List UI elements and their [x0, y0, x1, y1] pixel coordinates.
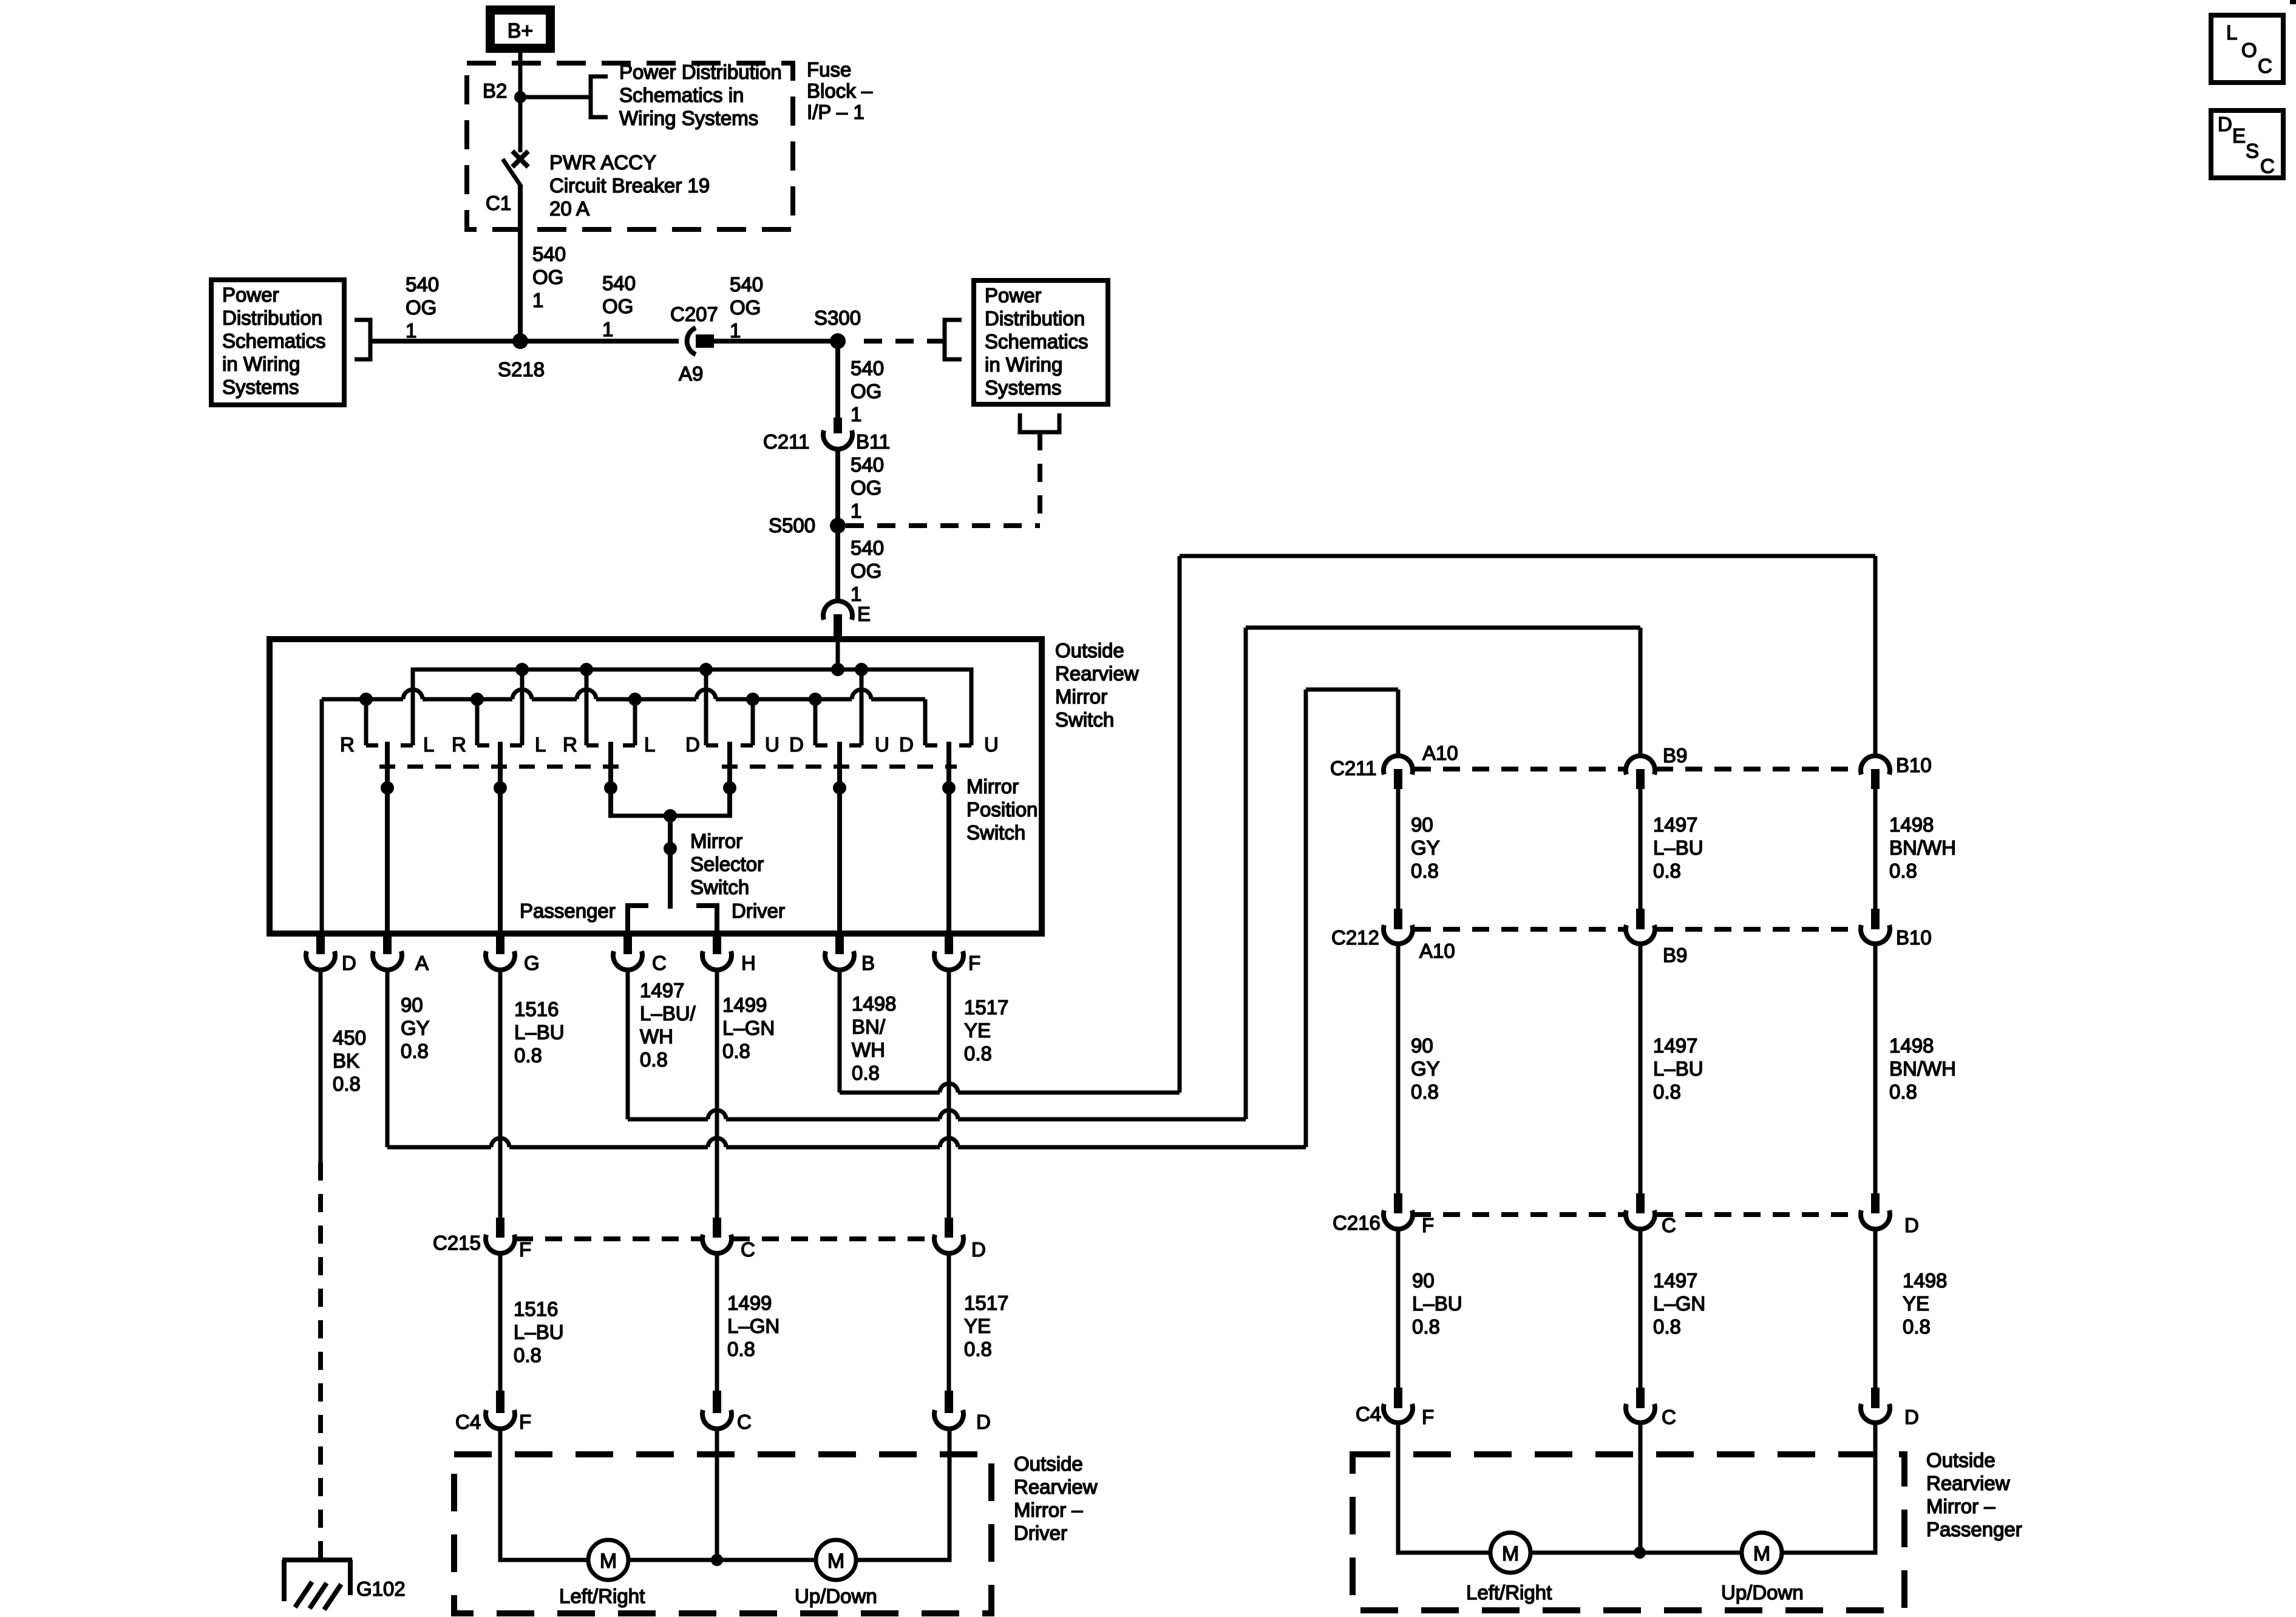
- LOC hotlink box: [2211, 15, 2283, 83]
- connector C4 passenger pin D female half: [1861, 1404, 1890, 1423]
- connector C211 pin B10 female half: [1861, 756, 1890, 775]
- svg-text:1497: 1497: [1653, 1269, 1697, 1292]
- connector C215 pin D male terminal: [945, 1218, 953, 1238]
- svg-text:D: D: [976, 1411, 991, 1433]
- svg-text:O: O: [2241, 39, 2257, 61]
- svg-text:1516: 1516: [514, 1298, 558, 1320]
- wire C207 to S300: [714, 339, 838, 344]
- svg-text:A: A: [415, 952, 429, 974]
- svg-text:Passenger: Passenger: [1926, 1518, 2022, 1541]
- svg-text:D: D: [685, 733, 700, 756]
- svg-text:540: 540: [851, 357, 884, 379]
- svg-text:L–BU: L–BU: [1653, 836, 1703, 859]
- connector C216 pin D male terminal: [1871, 1193, 1880, 1213]
- connector C4 passenger pin F male terminal: [1394, 1388, 1402, 1408]
- svg-text:Fuse: Fuse: [807, 58, 851, 81]
- connector C216 pin D female half: [1861, 1210, 1890, 1229]
- svg-text:0.8: 0.8: [514, 1044, 542, 1066]
- svg-text:Position: Position: [966, 798, 1038, 821]
- svg-text:Driver: Driver: [732, 900, 785, 922]
- svg-text:Schematics: Schematics: [985, 330, 1089, 353]
- svg-text:L: L: [423, 733, 434, 756]
- svg-text:L: L: [535, 733, 546, 756]
- wire S500 down to connector E: [835, 526, 840, 601]
- svg-text:Outside: Outside: [1926, 1449, 1995, 1471]
- connector C4 passenger pin F female half: [1384, 1404, 1413, 1423]
- wiper pivot dots: [381, 781, 394, 795]
- svg-text:F: F: [519, 1238, 531, 1261]
- svg-text:C212: C212: [1331, 926, 1379, 949]
- svg-text:0.8: 0.8: [964, 1338, 992, 1360]
- mechanical linkage dashes (left/right rocker): [379, 765, 619, 769]
- feed bus drop stubs from upper bus: [520, 670, 525, 745]
- wire 1497 L-BU/WH up right side: [1244, 628, 1248, 1119]
- C216 connector dashes: [1414, 1212, 1625, 1217]
- svg-text:0.8: 0.8: [1653, 1080, 1681, 1103]
- switch pin G female half: [486, 951, 515, 970]
- passenger left/right motor M: [1490, 1533, 1530, 1573]
- connector E male terminal: [834, 614, 842, 636]
- svg-text:0.8: 0.8: [964, 1042, 992, 1065]
- svg-text:U: U: [875, 733, 889, 756]
- svg-text:S300: S300: [814, 307, 861, 329]
- svg-text:D: D: [1904, 1406, 1919, 1428]
- svg-text:YE: YE: [1903, 1292, 1929, 1315]
- svg-text:Power: Power: [985, 284, 1042, 307]
- svg-text:S218: S218: [498, 358, 545, 381]
- svg-text:90: 90: [401, 994, 423, 1016]
- svg-text:U: U: [765, 733, 779, 756]
- wire C212 A10 to C216 F (90 GY): [1396, 944, 1401, 1193]
- svg-text:0.8: 0.8: [1889, 1080, 1917, 1103]
- svg-text:I/P – 1: I/P – 1: [807, 101, 864, 123]
- wire pin F 1517 YE down to C215: [947, 970, 951, 1218]
- outside rearview mirror switch box: [270, 639, 1042, 934]
- svg-text:GY: GY: [1411, 836, 1440, 859]
- svg-text:1497: 1497: [640, 979, 684, 1002]
- svg-text:Wiring Systems: Wiring Systems: [619, 107, 758, 129]
- wire left reference to S218: [370, 339, 520, 344]
- wire E into switch (to feed bus): [836, 635, 840, 670]
- svg-text:450: 450: [333, 1026, 366, 1049]
- svg-text:WH: WH: [852, 1039, 885, 1061]
- wire C215 D to C4 D (1517 YE): [947, 1253, 951, 1391]
- svg-text:L–BU: L–BU: [514, 1321, 564, 1343]
- svg-text:C215: C215: [433, 1232, 481, 1254]
- wire C212 B10 to C216 D (1498 BN/WH): [1873, 944, 1878, 1193]
- selector passenger contact: [628, 906, 648, 934]
- svg-text:540: 540: [602, 272, 636, 294]
- svg-text:Schematics: Schematics: [222, 330, 326, 352]
- connector C211 pin B10 male terminal: [1871, 769, 1880, 789]
- svg-text:R: R: [452, 733, 466, 756]
- connector C215 pin C male terminal: [713, 1218, 721, 1238]
- svg-text:OG: OG: [730, 296, 761, 319]
- wire S218 to C207: [520, 339, 679, 344]
- connector C212 pin B10 male terminal: [1871, 909, 1880, 929]
- svg-text:Left/Right: Left/Right: [559, 1585, 645, 1607]
- wire C216 D to C4 D (1498 YE): [1873, 1229, 1878, 1388]
- wire between driver motors: [628, 1558, 816, 1562]
- svg-text:B10: B10: [1896, 754, 1932, 776]
- svg-text:1497: 1497: [1653, 1034, 1697, 1057]
- selector driver contact: [696, 906, 717, 934]
- switch contact feet: [366, 744, 378, 748]
- svg-text:OG: OG: [851, 560, 881, 582]
- wire S300 down to C211: [835, 341, 840, 419]
- svg-text:B2: B2: [483, 80, 507, 102]
- svg-text:Selector: Selector: [690, 853, 764, 875]
- svg-text:1497: 1497: [1653, 813, 1697, 836]
- svg-text:D: D: [1904, 1214, 1919, 1236]
- battery feed B+ symbol: [491, 10, 551, 49]
- svg-text:Block –: Block –: [807, 80, 873, 102]
- switch pin D male terminal: [316, 934, 325, 954]
- svg-text:540: 540: [532, 243, 566, 265]
- svg-text:M: M: [600, 1550, 617, 1573]
- svg-text:OG: OG: [851, 476, 881, 499]
- svg-text:Switch: Switch: [966, 821, 1025, 844]
- passenger motor junction: [1634, 1547, 1646, 1559]
- driver up/down motor M: [816, 1540, 856, 1580]
- switch pin D female half: [306, 951, 335, 970]
- svg-text:B11: B11: [856, 430, 890, 453]
- wire C4 D into passenger mirror: [1782, 1423, 1875, 1553]
- svg-text:0.8: 0.8: [1653, 1315, 1681, 1338]
- connector C215 pin D female half: [934, 1235, 963, 1253]
- wire C212 B9 to C216 C (1497 L-BU): [1639, 944, 1643, 1193]
- svg-text:L–GN: L–GN: [727, 1315, 779, 1337]
- svg-text:1498: 1498: [852, 992, 896, 1015]
- connector C212 pin B9 male terminal: [1636, 909, 1645, 929]
- reference bracket (left box): [355, 320, 370, 359]
- connector C216 pin C female half: [1626, 1210, 1655, 1229]
- connector C212 pin A10 male terminal: [1394, 909, 1402, 929]
- svg-text:Mirror: Mirror: [690, 830, 742, 852]
- power distribution reference box (right): [974, 280, 1108, 404]
- node S300 splice: [830, 333, 846, 349]
- svg-text:Switch: Switch: [1055, 708, 1114, 731]
- circuit breaker blade: [503, 159, 521, 187]
- svg-text:L–BU/: L–BU/: [640, 1002, 696, 1025]
- svg-text:1: 1: [851, 500, 861, 522]
- svg-text:540: 540: [851, 453, 884, 476]
- connector C211 pin A10 female half: [1384, 756, 1413, 775]
- C211 connector dashes (right): [1414, 767, 1625, 771]
- svg-text:C216: C216: [1333, 1212, 1381, 1234]
- C212 connector dashes: [1414, 927, 1625, 932]
- svg-text:F: F: [1422, 1406, 1434, 1428]
- connector C211 pin B9 female half: [1626, 756, 1655, 775]
- svg-text:1517: 1517: [964, 1292, 1008, 1314]
- DESC hotlink box: [2211, 110, 2283, 178]
- svg-text:Power: Power: [222, 283, 279, 306]
- page corner mark: [2290, 0, 2296, 4]
- lower bus junction dots: [359, 693, 373, 706]
- svg-text:GY: GY: [401, 1017, 430, 1039]
- svg-text:M: M: [827, 1550, 844, 1573]
- svg-text:C: C: [737, 1411, 752, 1433]
- wire C4 F into passenger mirror: [1398, 1423, 1490, 1553]
- connector C212 pin B10 female half: [1861, 925, 1890, 944]
- svg-text:OG: OG: [851, 380, 881, 402]
- svg-text:Mirror: Mirror: [966, 775, 1019, 798]
- connector C4 driver pin C male terminal: [713, 1391, 721, 1413]
- svg-text:1: 1: [602, 318, 613, 341]
- svg-text:20 A: 20 A: [549, 197, 589, 220]
- wire C4 C into driver mirror: [715, 1429, 719, 1560]
- svg-text:Up/Down: Up/Down: [1721, 1581, 1804, 1604]
- svg-text:B9: B9: [1663, 744, 1687, 767]
- connector C4 driver pin F female half: [486, 1410, 515, 1429]
- wire pin C 1497 L-BU/WH down: [626, 970, 630, 1119]
- svg-text:540: 540: [851, 537, 884, 559]
- svg-text:90: 90: [1411, 813, 1433, 836]
- svg-text:0.8: 0.8: [1889, 859, 1917, 882]
- wire 90 GY up right side: [1304, 690, 1308, 1147]
- driver left/right motor M: [588, 1540, 628, 1580]
- svg-text:Circuit Breaker 19: Circuit Breaker 19: [549, 174, 710, 197]
- wire C211 A10 to C212 A10 (90 GY): [1396, 789, 1401, 909]
- connector C215 pin C female half: [702, 1235, 732, 1253]
- wire C216 F to C4 F (90 L-BU): [1396, 1229, 1401, 1388]
- svg-text:M: M: [1753, 1542, 1770, 1565]
- connector C216 pin C male terminal: [1636, 1193, 1645, 1213]
- svg-text:L–GN: L–GN: [1653, 1292, 1705, 1315]
- connector C4 passenger pin C female half: [1626, 1404, 1655, 1423]
- node S500 splice: [830, 518, 846, 534]
- svg-text:BN/WH: BN/WH: [1889, 836, 1956, 859]
- switch pin C male terminal: [623, 934, 632, 954]
- svg-text:Distribution: Distribution: [222, 307, 322, 329]
- wire C211 B9 to C212 B9 (1497 L-BU): [1639, 789, 1643, 909]
- wire C215 F to C4 F (1516 L-BU): [498, 1253, 503, 1391]
- svg-text:540: 540: [406, 273, 439, 296]
- node S218 splice: [512, 333, 528, 349]
- svg-text:Mirror: Mirror: [1055, 685, 1107, 708]
- svg-text:1499: 1499: [722, 994, 767, 1016]
- svg-text:C211: C211: [1330, 757, 1376, 779]
- svg-text:1499: 1499: [727, 1292, 772, 1314]
- switch pin C female half: [613, 951, 642, 970]
- dashed wire right reference down to S500: [1038, 432, 1042, 526]
- svg-text:0.8: 0.8: [1903, 1315, 1931, 1338]
- connector C4 driver pin D male terminal: [945, 1391, 953, 1413]
- svg-text:OG: OG: [406, 296, 436, 319]
- svg-text:Left/Right: Left/Right: [1466, 1581, 1552, 1604]
- connector C207 female half: [687, 328, 696, 354]
- wire pin A 90 GY horizontal with hops: [387, 1145, 491, 1150]
- wire C215 C to C4 C (1499 L-GN): [715, 1253, 719, 1391]
- svg-text:in Wiring: in Wiring: [985, 353, 1062, 376]
- svg-text:F: F: [968, 952, 980, 974]
- svg-text:Distribution: Distribution: [985, 307, 1085, 330]
- svg-text:OG: OG: [602, 295, 633, 317]
- svg-text:C207: C207: [670, 303, 718, 325]
- ground bus right drop (U6 D contact): [923, 699, 928, 745]
- wire C4 F into driver mirror: [500, 1429, 588, 1560]
- dashed wire S300 to power distribution reference (right): [864, 339, 945, 344]
- svg-text:90: 90: [1411, 1034, 1433, 1057]
- connector C215 pin F female half: [486, 1235, 515, 1253]
- svg-text:C: C: [2258, 55, 2272, 77]
- svg-text:GY: GY: [1411, 1057, 1440, 1080]
- power distribution reference box (left): [211, 280, 344, 405]
- svg-text:E: E: [857, 603, 871, 625]
- wire pin D ground 450 BK (dashed part): [318, 1162, 323, 1558]
- svg-text:D: D: [899, 733, 914, 756]
- connector C211 pin B11 male terminal: [834, 418, 842, 433]
- connector C207 male terminal: [696, 334, 714, 348]
- ground bus stub drops: [364, 699, 369, 745]
- C215 connector dashes: [516, 1236, 701, 1241]
- connector C211 pin A10 male terminal: [1394, 769, 1402, 789]
- svg-text:1498: 1498: [1889, 813, 1934, 836]
- node B2 junction: [514, 91, 526, 103]
- reference bracket (power distribution): [591, 76, 608, 117]
- switch pin G male terminal: [496, 934, 504, 954]
- svg-text:L–BU: L–BU: [1412, 1292, 1462, 1315]
- svg-text:0.8: 0.8: [852, 1062, 880, 1084]
- svg-text:Passenger: Passenger: [520, 900, 616, 922]
- outside rearview mirror passenger dashed box: [1353, 1454, 1904, 1610]
- wire 1497 L-BU/WH horizontal with hops: [628, 1117, 708, 1122]
- svg-text:R: R: [340, 733, 355, 756]
- upper bus junction dots: [515, 663, 529, 676]
- svg-text:0.8: 0.8: [333, 1073, 361, 1095]
- switch pin A female half: [373, 951, 402, 970]
- fuse block I/P dashed boundary: [467, 63, 793, 229]
- connector C216 pin F female half: [1384, 1210, 1413, 1229]
- svg-text:L–BU: L–BU: [514, 1021, 565, 1043]
- svg-text:BK: BK: [333, 1049, 359, 1072]
- connector C4 driver pin D female half: [934, 1410, 963, 1429]
- svg-text:0.8: 0.8: [1411, 859, 1439, 882]
- connector C4 passenger pin D male terminal: [1871, 1388, 1880, 1408]
- wire C4 D into driver mirror: [856, 1429, 949, 1560]
- svg-text:0.8: 0.8: [1411, 1080, 1439, 1103]
- mechanical linkage dashes (up/down rocker): [722, 765, 957, 769]
- svg-text:H: H: [741, 952, 756, 974]
- svg-text:C: C: [1662, 1406, 1676, 1428]
- wire C211 B11 to S500: [835, 449, 840, 526]
- wire 1498 BN/WH up right side: [1178, 556, 1182, 1093]
- svg-text:E: E: [2232, 124, 2246, 147]
- svg-text:A10: A10: [1419, 940, 1455, 962]
- svg-text:C: C: [1662, 1214, 1676, 1236]
- circuit breaker PWR ACCY contact X: [512, 151, 528, 167]
- connector C4 passenger pin C male terminal: [1636, 1388, 1645, 1408]
- svg-text:Power Distribution: Power Distribution: [619, 61, 782, 83]
- mirror selector switch common bar: [608, 814, 732, 818]
- svg-text:0.8: 0.8: [727, 1338, 755, 1360]
- ground G102 symbol: [282, 1558, 352, 1562]
- svg-text:S: S: [2246, 140, 2259, 162]
- switch pin B female half: [825, 951, 854, 970]
- wire breaker to S218: [518, 186, 523, 341]
- switch pin H female half: [702, 951, 732, 970]
- svg-text:Outside: Outside: [1014, 1453, 1083, 1475]
- switch pin B male terminal: [835, 934, 844, 954]
- svg-text:Mirror –: Mirror –: [1014, 1499, 1083, 1521]
- svg-text:0.8: 0.8: [401, 1040, 429, 1062]
- svg-text:0.8: 0.8: [640, 1048, 668, 1071]
- wire between passenger motors: [1530, 1551, 1742, 1555]
- wire C4 C into passenger mirror: [1639, 1423, 1643, 1553]
- wire B2 to circuit breaker contact: [518, 97, 523, 152]
- svg-text:U: U: [984, 733, 999, 756]
- connector C211 pin B11 female half: [823, 430, 852, 449]
- svg-text:1498: 1498: [1903, 1269, 1947, 1292]
- svg-text:WH: WH: [640, 1025, 673, 1048]
- wire C216 C to C4 C (1497 L-GN): [1639, 1229, 1643, 1388]
- svg-text:S500: S500: [769, 514, 815, 537]
- connector C4 driver pin C female half: [702, 1410, 732, 1429]
- wire 1498 BN/WH horizontal with hop: [840, 1091, 940, 1095]
- svg-text:1516: 1516: [514, 998, 559, 1020]
- svg-text:G: G: [524, 952, 540, 974]
- svg-text:1: 1: [851, 403, 861, 425]
- connector C212 pin A10 female half: [1384, 925, 1413, 944]
- switch feed bus (upper): [413, 670, 971, 745]
- svg-text:Systems: Systems: [222, 376, 299, 398]
- svg-text:D: D: [971, 1238, 986, 1261]
- svg-text:C: C: [741, 1238, 755, 1261]
- svg-text:BN/WH: BN/WH: [1889, 1057, 1956, 1080]
- svg-text:1: 1: [730, 319, 741, 342]
- svg-text:Driver: Driver: [1014, 1522, 1067, 1544]
- svg-text:A9: A9: [679, 362, 703, 385]
- svg-text:C211: C211: [763, 430, 809, 453]
- svg-text:Up/Down: Up/Down: [795, 1585, 877, 1607]
- svg-text:L: L: [2226, 21, 2237, 44]
- connector E female half: [823, 601, 852, 620]
- svg-text:0.8: 0.8: [1653, 859, 1681, 882]
- svg-text:C4: C4: [455, 1411, 481, 1433]
- outside rearview mirror driver dashed box: [454, 1454, 991, 1613]
- switch pin F male terminal: [945, 934, 953, 954]
- svg-text:90: 90: [1412, 1269, 1435, 1292]
- wire pin B 1498 BN/WH down: [838, 970, 842, 1093]
- svg-text:A10: A10: [1422, 742, 1458, 764]
- svg-text:YE: YE: [964, 1019, 991, 1042]
- switch pin A male terminal: [383, 934, 392, 954]
- svg-text:L–GN: L–GN: [722, 1017, 775, 1039]
- connector C212 pin B9 female half: [1626, 925, 1655, 944]
- switch pin H male terminal: [713, 934, 721, 954]
- svg-text:D: D: [789, 733, 804, 756]
- svg-text:PWR ACCY: PWR ACCY: [549, 151, 656, 174]
- svg-text:Outside: Outside: [1055, 639, 1124, 662]
- connector C216 pin F male terminal: [1394, 1193, 1402, 1213]
- wire pin D ground 450 BK (solid part): [319, 970, 323, 1162]
- svg-text:C: C: [652, 952, 667, 974]
- svg-text:F: F: [519, 1411, 531, 1433]
- wire pin A 90 GY down: [385, 970, 390, 1147]
- driver motor junction: [711, 1554, 723, 1566]
- svg-text:C1: C1: [486, 192, 511, 214]
- svg-text:F: F: [1422, 1214, 1434, 1236]
- svg-text:0.8: 0.8: [722, 1040, 750, 1062]
- svg-text:D: D: [2218, 113, 2232, 135]
- wire B+ to B2 junction: [518, 52, 523, 97]
- svg-text:1: 1: [532, 289, 543, 311]
- connector C215 pin F male terminal: [496, 1218, 504, 1238]
- switch ground bus (lower) with crossover hops: [322, 697, 403, 702]
- svg-text:1: 1: [406, 319, 416, 342]
- reference bracket (right box left side): [945, 320, 962, 359]
- passenger up/down motor M: [1742, 1533, 1782, 1573]
